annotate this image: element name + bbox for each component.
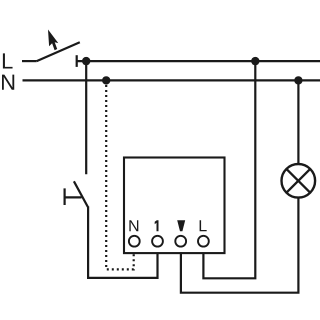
pushbutton S2 blade <box>74 181 88 207</box>
actuation arrow <box>48 30 58 51</box>
dimmer insert U1 (device box) <box>124 158 225 254</box>
node A junction dot (switched L / pushbutton tap) <box>82 57 90 65</box>
terminal N circle <box>129 236 140 247</box>
dotted neutral wire from node B to terminal N <box>106 85 134 269</box>
terminal label L <box>200 220 207 231</box>
wire node A down to pushbutton <box>85 61 87 174</box>
wire node D down to lamp top <box>297 80 299 164</box>
wire lamp bottom down, left and up to terminal arrow output <box>181 197 299 292</box>
node D junction dot (N tap for lamp) <box>294 76 302 84</box>
terminal arrow (output) circle <box>175 236 186 247</box>
switch S1 fixed contact bar <box>76 55 78 67</box>
terminal label N <box>129 220 138 231</box>
terminal 1 circle <box>152 236 163 247</box>
wire L feed from label to switch pivot <box>22 60 37 62</box>
label L (mains phase) <box>3 53 13 68</box>
terminal label arrow symbol <box>177 220 185 231</box>
switch S1 blade (open) <box>37 42 80 61</box>
node B junction dot (N tap for dotted neutral) <box>102 76 110 84</box>
terminal label 1 <box>155 220 159 231</box>
node C junction dot (L tap to dimmer L terminal) <box>251 57 259 65</box>
pushbutton S2 actuator (T bar) <box>65 188 82 205</box>
label N (neutral) <box>2 75 14 90</box>
terminal L circle <box>198 236 209 247</box>
wire pushbutton down, right and up to terminal 1 <box>88 206 157 278</box>
lamp E1 (circle with cross) <box>282 164 316 198</box>
wire node C down, left and up to terminal L <box>203 61 255 278</box>
wire L bus (switched L to right edge) <box>77 60 320 62</box>
wire N bus <box>23 79 320 81</box>
